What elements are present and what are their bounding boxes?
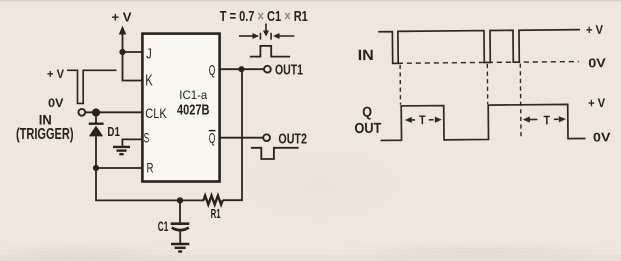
svg-text:0V: 0V bbox=[48, 96, 64, 110]
OUT1 terminal bbox=[264, 66, 271, 73]
node: C1 junction dot bbox=[177, 197, 183, 203]
node: Q junction dot bbox=[238, 66, 244, 72]
svg-text:Q: Q bbox=[209, 130, 216, 147]
svg-text:0V: 0V bbox=[593, 130, 611, 144]
svg-text:+ V: + V bbox=[586, 23, 604, 37]
dashed trigger line 2 bbox=[486, 64, 488, 104]
svg-text:R: R bbox=[147, 160, 154, 176]
wire to pin K bbox=[123, 52, 143, 81]
svg-text:IN: IN bbox=[39, 112, 52, 127]
wire pin Q to OUT1 bbox=[220, 68, 265, 70]
svg-text:C1: C1 bbox=[158, 218, 169, 234]
svg-text:4027B: 4027B bbox=[177, 102, 210, 118]
OUT1 positive pulse glyph bbox=[250, 46, 290, 57]
wire to pin J bbox=[123, 51, 143, 53]
input trigger pulse annotation bbox=[67, 70, 117, 103]
0V dashed level line bbox=[398, 62, 579, 64]
svg-text:CLK: CLK bbox=[145, 105, 167, 121]
svg-text:Q: Q bbox=[362, 105, 372, 121]
svg-text:T = 0.7 × C1 × R1: T = 0.7 × C1 × R1 bbox=[220, 8, 308, 25]
dashed trigger line 1 bbox=[399, 65, 401, 105]
IN terminal bbox=[78, 109, 85, 116]
svg-text:Q: Q bbox=[209, 62, 216, 79]
node: trigger junction dot bbox=[92, 108, 100, 116]
wire R1 to Q node bbox=[223, 69, 242, 200]
svg-text:S: S bbox=[144, 130, 150, 146]
ground (S pin) bbox=[113, 147, 130, 154]
svg-text:OUT1: OUT1 bbox=[275, 62, 303, 78]
Q OUT waveform bbox=[380, 104, 585, 140]
svg-text:T: T bbox=[419, 113, 426, 127]
wire down to bottom rail bbox=[96, 168, 204, 200]
T interval arrows (second pulse) bbox=[523, 116, 566, 123]
wire to pin R bbox=[96, 167, 143, 169]
svg-text:R1: R1 bbox=[211, 207, 221, 221]
svg-text:+ V: + V bbox=[47, 67, 64, 81]
node: R-pin junction dot bbox=[93, 165, 99, 171]
OUT2 terminal bbox=[263, 134, 270, 141]
node: junction dot at J branch bbox=[119, 49, 125, 55]
svg-text:OUT: OUT bbox=[354, 121, 381, 137]
capacitor C1 bbox=[171, 200, 190, 243]
svg-text:D1: D1 bbox=[107, 124, 120, 139]
svg-text:OUT2: OUT2 bbox=[278, 131, 307, 147]
wire terminal to CLK bbox=[85, 111, 142, 113]
IN waveform bbox=[378, 30, 580, 64]
wire pin Q-bar to OUT2 bbox=[220, 137, 264, 139]
pulse width annotation (arrows above OUT1 glyph) bbox=[239, 24, 294, 40]
svg-text:+ V: + V bbox=[588, 96, 606, 110]
svg-text:(TRIGGER): (TRIGGER) bbox=[16, 126, 74, 143]
OUT2 negative pulse glyph bbox=[251, 148, 299, 159]
ground (C1) bbox=[171, 244, 189, 252]
svg-text:0V: 0V bbox=[588, 56, 606, 70]
resistor R1 bbox=[204, 196, 223, 205]
wire pin S to ground bbox=[122, 139, 142, 145]
svg-text:J: J bbox=[146, 46, 152, 63]
diode D1 bbox=[89, 113, 104, 167]
svg-text:K: K bbox=[145, 73, 153, 90]
svg-text:T: T bbox=[544, 113, 551, 127]
pin label Q-bar bbox=[209, 130, 216, 147]
svg-text:IC1-a: IC1-a bbox=[179, 88, 207, 102]
svg-text:+ V: + V bbox=[112, 11, 133, 25]
svg-text:IN: IN bbox=[358, 47, 374, 64]
dashed trigger line 3 bbox=[519, 64, 522, 137]
+V supply arrow bbox=[119, 26, 126, 53]
T interval arrows (first pulse) bbox=[405, 117, 442, 124]
IC1-a box bbox=[142, 34, 219, 182]
